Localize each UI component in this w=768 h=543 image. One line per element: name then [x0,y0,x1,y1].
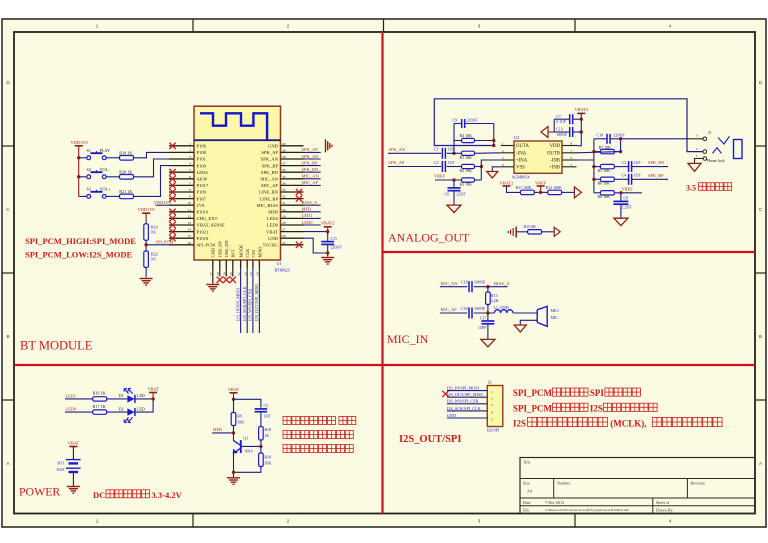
resistor R8 10K [594,192,601,194]
capacitor C17 15PF [487,313,489,320]
microphone MK1 MIC [537,306,547,326]
wire right feedback vertical [620,139,622,152]
svg-text:LINE_BP: LINE_BP [260,196,279,201]
svg-text:C2: C2 [434,160,439,165]
capacitor C16 100NF [468,308,470,319]
svg-text:C17: C17 [480,315,487,320]
svg-text:LED2: LED2 [267,216,279,221]
svg-text:2: 2 [287,519,290,524]
svg-text:100NF: 100NF [474,280,486,285]
junction emitter ground [232,471,235,474]
svg-text:SPI: SPI [590,388,605,398]
wire -INB to vertical [577,159,594,161]
svg-text:LED: LED [137,393,145,398]
svg-text:VDD1V8: VDD1V8 [138,207,156,212]
svg-text:+INA: +INA [516,159,528,164]
svg-text:GND: GND [268,236,279,241]
U1 pin 39 SPK_AP [281,151,304,153]
ground at VSS (triangle) [487,172,498,179]
svg-text:R19 1K: R19 1K [119,150,132,155]
junction C13 rail [580,130,583,133]
jack tip contact [718,136,730,144]
transistor Q1 9014 [240,440,242,453]
svg-text:12: 12 [188,214,192,218]
junction Q1 base node [259,445,262,448]
svg-text:2: 2 [189,148,191,152]
wire I2S pin 22 [246,268,248,333]
wire VBAT2 rail [327,227,329,232]
svg-text:4: 4 [669,24,672,29]
svg-text:C16: C16 [461,306,468,311]
svg-text:Number: Number [557,481,571,486]
svg-text:I2S_OUT/SPI: I2S_OUT/SPI [399,434,461,445]
svg-text:S1: S1 [87,148,91,153]
U1 pin 30 MFB [281,211,304,213]
svg-text:SPK_BP: SPK_BP [302,160,319,165]
svg-text:1V8: 1V8 [197,203,206,208]
wire net LED0 pin 28 [304,224,321,226]
resistor R19 1K [120,156,134,161]
svg-text:MIC_AN: MIC_AN [441,281,459,286]
wire R21 to pin 4 [134,166,170,197]
no-connect X pin 18 [219,268,221,277]
note power-on delay line3 [283,445,353,453]
U1 pin 28 LED0 [281,224,304,226]
svg-text:1K: 1K [264,433,269,438]
capacitor C1 1UF [441,148,443,159]
wire VDD1V8 to R14 [145,213,147,224]
svg-text:15PF: 15PF [478,325,487,330]
svg-text:40: 40 [282,142,286,146]
svg-text:VBAT_SENSE: VBAT_SENSE [197,223,226,228]
svg-text:C5: C5 [264,403,269,408]
svg-text:3: 3 [478,24,481,29]
svg-text:D1: D1 [119,393,124,398]
U1 pin 38 SPK_AN [281,158,304,160]
svg-text:MFB: MFB [213,427,222,432]
svg-text:VDD: VDD [550,144,561,149]
port arrow right (GND tie) [554,227,560,236]
svg-text:P1016: P1016 [197,210,209,215]
svg-text:4: 4 [189,162,191,166]
U1 pin 25 5VCHG [281,244,304,246]
junction C10 out [619,137,622,140]
U1 pin 10 1V8 [169,204,194,206]
ground below C17 (triangle) [481,339,495,347]
svg-text:R16 1K: R16 1K [93,391,106,396]
svg-text:SPK_AN: SPK_AN [302,154,320,159]
svg-text:P106: P106 [197,144,207,149]
junction S2 rail [77,175,80,178]
svg-text:C7: C7 [556,115,561,119]
svg-text:1UF: 1UF [634,173,642,178]
svg-text:I2S_OUT/SPI_MISO: I2S_OUT/SPI_MISO [254,284,259,321]
svg-text:SPK_BN: SPK_BN [648,160,665,165]
wire C5 to R18 [260,412,262,427]
junction VBAT LED rail [151,397,154,400]
svg-text:Drawn By:: Drawn By: [656,507,674,512]
resistor R6 10K [594,178,601,180]
wire R11 to VREF node [534,191,547,193]
resistor R3 10K [462,178,475,182]
svg-text:10K: 10K [237,419,244,424]
svg-text:VBAT: VBAT [266,229,278,234]
svg-text:I2S_WS/SPI_CSB: I2S_WS/SPI_CSB [248,289,253,321]
svg-text:SPI_PCM_HIGH:SPI_MODE: SPI_PCM_HIGH:SPI_MODE [25,236,136,246]
ground below C6 (triangle) [447,205,461,213]
wire R15 to port [542,231,555,233]
svg-text:34: 34 [282,181,286,185]
svg-text:BIAS_A: BIAS_A [302,200,319,205]
wire bottom rail delay [234,467,261,473]
wire R9 to MFB node [233,426,235,433]
svg-text:I2S/SPI: I2S/SPI [487,428,500,433]
svg-text:C18: C18 [461,280,468,285]
svg-text:VBAT: VBAT [147,387,159,392]
wire S3 to resistor [106,195,119,197]
svg-text:File: File [523,507,529,512]
wire net SPK_AP [304,151,321,153]
ground at pin 40 GND [325,139,327,152]
svg-text:2: 2 [287,24,290,29]
capacitor C6 22UF [448,187,461,189]
U1 pin 1 P106 [169,145,194,147]
U2 pin 7 OUTB [562,152,577,154]
wire R17 to D2 [107,411,128,413]
svg-text:J2: J2 [488,379,492,384]
LED D1 [127,395,134,402]
wire rail to S1 [79,157,87,159]
ground at pin 17 [206,284,219,286]
wire C4 to SPK_BP [632,178,668,180]
wire OUTB to feedback [577,152,621,153]
wire OUTA top rail [434,99,703,152]
svg-text:GND: GND [211,248,216,258]
svg-text:R18: R18 [264,427,271,432]
wire C17 to ground [487,324,489,339]
svg-text:2: 2 [491,397,493,401]
op-amp U2 SGM8054 body [514,141,562,173]
svg-text:10: 10 [188,201,192,205]
wire VSS to ground [492,167,500,172]
svg-text:1: 1 [189,142,191,146]
svg-text:1UF: 1UF [634,160,642,165]
svg-text:-INA: -INA [516,151,527,156]
svg-text:MIC_AP: MIC_AP [261,183,278,188]
svg-text:CHG_EXT: CHG_EXT [197,216,218,221]
svg-text:4: 4 [669,519,672,524]
U1 pin 35 MIC_AN [281,178,304,180]
svg-text:P100: P100 [197,163,207,168]
wire OUTB to phone jack tip [621,138,689,140]
red section divider horizontal full width [14,364,755,366]
svg-text:Size: Size [523,481,530,486]
U1 pin 20 RST [232,260,234,268]
U1 pin 12 CHG_EXT [169,217,194,219]
svg-text:100NF: 100NF [556,133,567,137]
wire jack pin1 to ground [695,159,704,164]
ground below C11 [321,257,334,259]
svg-text:Phone Jack: Phone Jack [707,158,725,163]
svg-text:VBAT2: VBAT2 [500,180,514,185]
U1 pin 36 SPK_BN [281,171,304,173]
wire MIC_AN to C18 [440,286,467,288]
wire VBAT to R9 [233,399,235,412]
U2 pin 5 +INB [562,166,577,168]
wire S1 to resistor [106,157,119,159]
svg-text:OUTA: OUTA [516,144,529,149]
svg-text:SPI_PCM: SPI_PCM [156,239,174,244]
svg-text:VBAT2: VBAT2 [574,107,588,112]
svg-text:MIC_AP: MIC_AP [302,180,319,185]
svg-text:14: 14 [188,228,192,232]
svg-text:3: 3 [189,155,191,159]
svg-text:VBAT: VBAT [68,441,80,446]
svg-text:4: 4 [491,410,493,414]
chip internal divider line [194,139,281,141]
wire top rail delay circuit [234,399,261,407]
connector J2 body [487,386,503,427]
svg-text:1: 1 [491,390,493,394]
wire to R15 [516,231,527,233]
J2 pin 5 GND [447,417,487,419]
wire cap left rail [553,119,555,132]
svg-text:DC: DC [93,490,105,500]
wire R6 to C4 [614,178,628,180]
svg-text:R9: R9 [237,413,242,418]
svg-text:100NF: 100NF [474,306,486,311]
svg-text:SPI_PCM: SPI_PCM [513,403,553,413]
svg-text:BAT: BAT [57,467,65,472]
svg-text:GND: GND [447,413,456,418]
svg-text:1UF: 1UF [448,160,456,165]
ground below C8 (triangle) [614,218,628,226]
svg-text:USB_DP: USB_DP [218,241,223,258]
svg-text:P107: P107 [197,196,207,201]
svg-text:R7 10K: R7 10K [599,145,612,150]
svg-text:CLK: CLK [245,248,250,258]
svg-text:B: B [759,334,762,339]
wire SPK_AP to C2 [388,166,441,168]
svg-text:29: 29 [282,214,286,218]
capacitor C9 220UF [454,123,462,125]
capacitor C11 220UF [321,241,334,243]
wire feedback vertical left [453,124,455,154]
junction BIAS_A R13 [486,285,489,288]
port arrow left (AGND) [541,127,548,138]
svg-text:5VCHG: 5VCHG [263,243,279,248]
U1 pin 19 USB_DN [225,260,227,268]
capacitor C18 100NF [468,281,470,292]
svg-text:SPK_BN: SPK_BN [261,170,279,175]
resistor R21 1K [120,194,134,199]
resistor R22 NC [144,251,149,268]
wire net SPK_BN [304,171,321,173]
svg-text:BTM625: BTM625 [275,267,290,272]
wire pin 17 to ground [212,268,214,284]
svg-text:C11: C11 [331,236,338,241]
svg-text:MODE: MODE [239,244,244,257]
LED D2 [127,408,134,415]
ground delay circuit [227,477,240,479]
wire MIC_AP to C16 [440,312,467,314]
border column ticks [192,19,194,32]
svg-text:I2S_SCK/SPI_CLK: I2S_SCK/SPI_CLK [447,406,481,411]
wire microphone to ground [520,320,537,325]
svg-text:C1: C1 [434,147,439,152]
wire pin 27 VBAT to rail [304,231,328,233]
capacitor C10 220UF [594,138,607,140]
svg-text:Revision: Revision [691,481,705,486]
wire C16 to L1 [474,312,495,314]
svg-text:USB_DN: USB_DN [224,240,229,258]
svg-text:LED0: LED0 [302,220,314,225]
U1 pin 16 SPI_PCM [169,244,194,246]
svg-text:R4 10K: R4 10K [460,133,473,138]
wire rail to S3 [79,195,87,197]
svg-text:LINE_BN: LINE_BN [259,190,279,195]
svg-text:RST: RST [231,249,236,257]
wire battery to ground [72,472,74,486]
svg-text:SPK_BP: SPK_BP [262,163,279,168]
U1 pin 24 MISO [258,260,260,268]
wire VREF node to C6 [453,180,455,187]
net label VDD1V8 at pin 10 [156,204,170,206]
svg-text:VDD1V8: VDD1V8 [70,140,88,145]
svg-text:R10: R10 [264,454,271,459]
no-connect X pin 13 [169,222,175,228]
svg-text:VREF: VREF [434,174,446,179]
U1 pin 14 P1021 [169,231,194,233]
svg-text:VOL+: VOL+ [100,187,112,192]
U1 pin 27 VBAT [281,231,304,233]
wire to AGND arrow [548,131,554,133]
U1 pin 26 GND [281,237,304,239]
inductor L1 15NH [494,310,513,313]
svg-text:39: 39 [282,148,286,152]
svg-text:LED4: LED4 [197,170,209,175]
svg-text:R20 1K: R20 1K [119,169,132,174]
junction feedback input node [452,152,455,155]
wire net BIAS_A pin 31 [304,204,321,206]
svg-text:VBAT2: VBAT2 [321,221,335,226]
capacitor C2 1UF [441,161,443,172]
wire I2S pin 24 [258,268,260,333]
U2 pin 4 VSS [501,166,514,168]
svg-text:POWER: POWER [19,485,60,499]
svg-text:C3: C3 [622,160,627,165]
svg-text:P1017: P1017 [197,183,209,188]
svg-text:3.3-4.2V: 3.3-4.2V [152,490,183,500]
svg-text:R17 1K: R17 1K [93,404,106,409]
wire net SPK_BP [304,165,321,167]
resistor R13 2.2K [487,287,489,292]
wire Q1 emitter down [233,454,235,473]
wire rail to S2 [79,176,87,178]
wire L1 to microphone [513,312,537,314]
svg-text:SPK_BP: SPK_BP [648,173,664,178]
svg-text:R21 1K: R21 1K [119,189,132,194]
wire R5 to C3 [614,166,628,168]
wire VBAT to battery [72,447,74,460]
no-connect X pin 32 [296,195,302,201]
svg-text:MK1: MK1 [551,308,559,313]
wire net MIC_AP [304,184,321,186]
svg-text:2.2UF: 2.2UF [622,205,633,210]
wire C8 to ground [620,204,622,218]
svg-text:R12 100K: R12 100K [546,185,563,190]
wire I2S pin 21 [240,268,242,333]
svg-text:C13: C13 [556,128,562,132]
svg-text:25: 25 [282,241,286,245]
junction VBAT C11 [326,230,329,233]
wire C3 to SPK_BN [632,166,668,168]
capacitor C13 100NF [554,131,569,133]
svg-text:ANALOG_OUT: ANALOG_OUT [388,230,470,244]
wire I2S pin 23 [252,268,254,333]
resistor R2 10K [462,164,475,168]
wire VREF node to C8 [620,193,622,201]
U2 pin 2 -INA [501,152,514,154]
U1 pin 7 P1017 [169,184,194,186]
resistor R15 0R [528,230,542,234]
svg-text:J1: J1 [708,130,712,135]
svg-text:S3: S3 [87,187,91,192]
svg-text:26: 26 [282,234,286,238]
svg-text:6: 6 [189,175,191,179]
junction R4 C9 [492,139,495,142]
capacitor C7 0.1UF [554,118,569,120]
svg-text:MIC_BIAS: MIC_BIAS [257,203,279,208]
wire MFB node to Q1 [233,433,235,441]
svg-text:VOL-: VOL- [100,167,111,172]
wire D1 to VBAT rail [135,398,153,400]
svg-text:MIC_AN: MIC_AN [302,174,320,179]
U1 pin 22 CLK [246,260,248,268]
resistor R12 100K [548,190,562,194]
svg-text:C8: C8 [624,195,629,200]
svg-text:AIO0: AIO0 [197,177,208,182]
svg-text:I2S_OUT/SPI_MISO: I2S_OUT/SPI_MISO [447,392,483,397]
resistor R4 10K [454,140,462,142]
svg-text:C10: C10 [597,132,604,137]
ground at jack (triangle) [688,163,701,171]
no-connect X pin 12 [169,215,175,221]
svg-text:5: 5 [189,168,191,172]
U1 pin 15 P1018 [169,237,194,239]
svg-text:33: 33 [282,188,286,192]
svg-text:Q1: Q1 [243,435,248,440]
svg-text:d:\Bluetooth\NFC4\internal-A\(: d:\Bluetooth\NFC4\internal-A\(B2S)\Appli… [545,508,629,512]
no-connect X pin 7 [169,182,175,188]
svg-text:SPK_BN: SPK_BN [302,167,320,172]
switch S1 PLAY [87,156,91,160]
capacitor C4 1UF [628,174,630,185]
op-amp U1 BTM625 body [194,106,281,260]
no-connect X pin 33 [296,189,302,195]
U1 pin 32 LINE_BP [281,198,304,200]
svg-text:35: 35 [282,175,286,179]
U1 pin 9 P107 [169,198,194,200]
ground at microphone (triangle) [514,325,526,332]
svg-text:I2S_IN/SPI_MOSI: I2S_IN/SPI_MOSI [235,287,240,321]
svg-text:3.5: 3.5 [686,183,696,192]
svg-text:-INB: -INB [550,159,560,164]
svg-text:31: 31 [282,201,286,205]
junction R2 R3 node [480,165,483,168]
note power-on delay line2 [283,431,353,439]
resistor R10 10K [260,446,262,453]
